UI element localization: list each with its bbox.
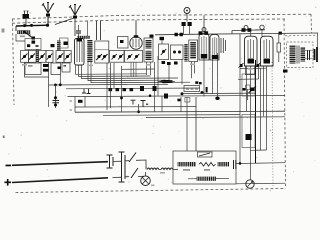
wire speaker ties xyxy=(305,51,315,59)
tube V6 electrodes xyxy=(264,39,270,58)
stray mark left margin top xyxy=(2,29,5,33)
band switch box S2 xyxy=(184,86,200,92)
variable capacitor CV12 xyxy=(162,50,165,53)
wire bus 2 xyxy=(232,30,265,34)
shield dotted vertical mid-right xyxy=(272,62,273,186)
blob above S2 a xyxy=(195,81,198,84)
wire battery link bottom xyxy=(113,176,130,179)
label in box A xyxy=(28,65,33,67)
wire rail 88 xyxy=(66,87,200,90)
trimmer C7 xyxy=(188,22,192,26)
wire right horiz 68 xyxy=(240,67,267,69)
output tube V4 can xyxy=(210,35,219,61)
tube V5 cathode blob xyxy=(248,59,255,64)
battery minus wire xyxy=(12,162,108,166)
rail y93 xyxy=(182,92,256,95)
capacitor T1 top xyxy=(150,35,154,38)
coil column above G5 xyxy=(57,41,61,51)
switch S1 pole 2 xyxy=(131,168,138,178)
wire nested L v3 xyxy=(82,65,179,79)
shield border dashed left vertical xyxy=(13,19,15,105)
trimmer C2b tick xyxy=(36,45,39,47)
variable capacitor CV9 xyxy=(113,55,116,58)
wire antenna A1 down xyxy=(47,17,49,26)
wire rail 96 xyxy=(68,95,286,96)
node rail84 j1 xyxy=(54,84,57,87)
trimmer C12 xyxy=(140,86,144,91)
tuning capacitor top blob xyxy=(77,38,83,42)
trimmer C4 xyxy=(64,42,69,46)
battery plate 4 xyxy=(124,155,126,179)
antenna A1 xyxy=(42,3,54,14)
wire nested L v5 xyxy=(91,62,190,83)
wire nested L v2 xyxy=(79,65,151,76)
wire battery link top xyxy=(113,160,130,163)
tick in box C xyxy=(64,65,67,67)
long rail B xyxy=(75,111,285,112)
antenna A2 lead-in connector xyxy=(73,16,77,19)
output transformer T3 primary xyxy=(290,46,296,64)
node rail junction b xyxy=(181,92,184,95)
filter choke L9 xyxy=(218,162,230,166)
wire long drop x196 xyxy=(195,97,197,151)
IF transformer T2 can xyxy=(189,40,198,62)
wire terminal down xyxy=(186,14,188,22)
wire right drop 262 xyxy=(263,66,265,116)
gang box G3 xyxy=(39,51,46,63)
gang box G5 xyxy=(56,51,64,63)
variable capacitor CV11 xyxy=(128,55,131,58)
wire antenna diagonal changeover xyxy=(55,18,74,25)
wire meter stem xyxy=(250,150,252,180)
node x121 xyxy=(120,97,123,100)
capacitor T-cap b xyxy=(141,101,146,107)
trimmer C2 xyxy=(27,44,30,47)
trimmer C6 xyxy=(182,22,186,26)
power tube V6 envelope xyxy=(261,36,274,66)
variable capacitor CV11b xyxy=(135,55,138,58)
wire T2 drops xyxy=(192,62,195,79)
resistor R3 xyxy=(123,88,127,91)
capacitor C5 xyxy=(76,31,81,33)
meter M1 xyxy=(246,180,254,188)
IF grid box xyxy=(159,44,169,60)
label smudge 1 xyxy=(22,64,27,66)
tube V1 mixer envelope xyxy=(130,37,142,49)
trimmer C10b xyxy=(256,64,259,67)
wire hf bus xyxy=(155,33,318,35)
wire after switch top xyxy=(136,160,146,169)
switch S1 pole 1 xyxy=(129,153,136,163)
wire T1 drops xyxy=(147,62,151,75)
wire choke drop xyxy=(217,53,219,98)
output transformer shield dashed box xyxy=(287,42,314,68)
wire C11 drop xyxy=(247,90,249,101)
wire IF drops xyxy=(181,60,187,152)
capacitor T-cap a xyxy=(131,100,136,104)
capacitor ground T1b xyxy=(87,89,91,94)
antenna A2 xyxy=(69,5,81,16)
wire right drop 244 xyxy=(246,66,248,111)
grid box RF xyxy=(60,38,69,48)
vibrator switch S3 xyxy=(198,152,213,157)
wire drop x158 xyxy=(158,56,162,111)
choke L5 xyxy=(221,38,226,53)
variable capacitor CV7 xyxy=(97,55,100,58)
trimmer C3 xyxy=(51,44,55,47)
volume control wiper arrow xyxy=(160,80,173,84)
wire nested L v1 xyxy=(76,65,147,74)
padder box B xyxy=(51,63,61,75)
wire ring3 drop xyxy=(261,30,263,37)
T2 winding xyxy=(190,42,196,59)
label under L8 xyxy=(183,169,190,171)
wire right link 163 xyxy=(236,34,285,164)
IF transformer T2 primary hatch xyxy=(184,44,187,62)
tuning capacitor plates xyxy=(77,41,82,62)
long rail A xyxy=(75,106,196,108)
resistor R2 xyxy=(116,88,120,91)
label smudge 4 xyxy=(190,64,195,66)
variable capacitor CV3 xyxy=(40,55,43,58)
filter choke L8 xyxy=(178,162,197,166)
blob left of small box xyxy=(177,99,180,102)
variable capacitor CV8 xyxy=(103,55,106,58)
wire nested L v4 xyxy=(88,62,162,81)
volume control box upper xyxy=(242,74,255,96)
contact bar S2 xyxy=(206,87,208,93)
node hf bus 2 xyxy=(180,33,183,36)
node wire163 x240 xyxy=(239,162,242,165)
wire box to meter xyxy=(236,182,285,185)
wire screen drop 2 xyxy=(100,21,102,41)
wire U link under tubes xyxy=(246,66,255,75)
wire antenna bus xyxy=(16,24,48,27)
scan speckle noise xyxy=(8,5,317,191)
tick near T-cap b xyxy=(146,104,148,106)
battery plate 1 long xyxy=(107,155,113,168)
stray mark left xyxy=(3,136,5,139)
blob near x240 xyxy=(243,88,246,91)
tube V1 electrodes xyxy=(133,39,139,48)
variable capacitor CV4 xyxy=(48,55,51,58)
battery plate 2 xyxy=(112,157,114,166)
wire gang G1 drop xyxy=(25,62,49,77)
shield border dashed bottom xyxy=(16,189,286,193)
wire choke link xyxy=(159,168,178,170)
node S2 right xyxy=(201,91,204,94)
mixer grid box xyxy=(118,37,129,49)
wire right drop 266 xyxy=(266,66,268,150)
tube V5 electrodes xyxy=(248,39,254,58)
node choke drop blob xyxy=(215,97,219,100)
tube V4 electrodes xyxy=(213,37,217,55)
coupling coil L3 horizontal hatch xyxy=(77,36,90,39)
electrolytic C15 stack xyxy=(55,85,57,108)
node x138 rail xyxy=(137,110,140,113)
T3 core xyxy=(297,46,299,64)
wire V1 top cap lead xyxy=(135,20,137,35)
long rail C xyxy=(103,114,240,117)
variable capacitor CV2 xyxy=(30,55,33,58)
trimmer C10a xyxy=(240,64,243,67)
terminal ring 3 xyxy=(260,25,264,29)
choke L6 humps xyxy=(147,168,159,170)
terminal ring 2 xyxy=(244,26,248,30)
wire plug to bus xyxy=(25,19,27,26)
trimmer C13 xyxy=(153,86,157,91)
padder capacitor pair lower xyxy=(43,69,49,72)
wire lamp stem xyxy=(145,172,147,176)
tube V3 base xyxy=(201,54,207,59)
node bus junction 2 xyxy=(30,24,33,27)
detector tube V3 can xyxy=(199,34,209,61)
tick mark left xyxy=(70,101,73,110)
tube V2 electrodes xyxy=(173,51,176,54)
capacitor C8 xyxy=(160,37,165,40)
padder box A xyxy=(25,63,41,75)
shield border dashed right long vertical xyxy=(284,19,286,189)
label smudge 3 xyxy=(146,64,151,66)
padder box C xyxy=(62,63,70,72)
blob in box B xyxy=(58,67,62,70)
wire drop x131-136 xyxy=(131,62,136,77)
capacitor blob under IF box 2 xyxy=(167,62,171,65)
small box below S2 xyxy=(185,98,190,103)
terminal ring 1 xyxy=(202,28,206,32)
wire rail 79 right xyxy=(238,66,259,79)
wire under IF boxes xyxy=(168,65,170,82)
shield border dashed top inner xyxy=(12,19,285,23)
T1 winding upper xyxy=(146,40,152,49)
shield border dashed right short vertical xyxy=(310,14,313,33)
wire drop x121 xyxy=(121,66,123,112)
wire drop bundle from RF box xyxy=(107,63,114,110)
T3 secondary xyxy=(301,48,306,62)
tube V1 top cap xyxy=(134,35,138,38)
gang box G4 xyxy=(46,51,53,63)
node bus junction 1 xyxy=(23,24,26,27)
wire bus left drop xyxy=(15,26,17,31)
wire drop x154 xyxy=(154,62,156,112)
wire screen drop 1 xyxy=(96,21,98,40)
resistor R5 vertical xyxy=(277,43,281,52)
wire right link 150 xyxy=(251,149,267,151)
RF stage box xyxy=(95,41,109,63)
node wire33 at border xyxy=(279,32,282,35)
battery plate 3 long xyxy=(119,152,125,182)
secondary choke L10 xyxy=(197,177,217,181)
battery plus wire xyxy=(12,178,108,183)
trimmer C11 xyxy=(250,88,255,92)
gang box G2 xyxy=(29,51,37,63)
phone plug P1 body xyxy=(23,14,30,19)
wire drop x260 xyxy=(260,68,262,150)
wire C8 drop xyxy=(161,40,163,44)
wire V3 base drop xyxy=(203,59,205,97)
wire top tie xyxy=(87,21,89,36)
mixer grid contents xyxy=(120,40,124,43)
resistor R4 xyxy=(130,88,134,91)
node rail junction a xyxy=(149,94,152,97)
node bus blob 2 xyxy=(205,31,209,35)
battery minus sign xyxy=(6,165,12,167)
node C15 top xyxy=(54,96,57,99)
node bus2 blob 2 xyxy=(248,28,252,32)
tube V2 IF amp box xyxy=(171,45,184,60)
wire drop x138 xyxy=(138,104,140,112)
speaker LS xyxy=(315,47,318,62)
variable tap arrow L1 xyxy=(24,31,34,39)
coil L2 hatch column xyxy=(36,50,39,63)
wire right drop 249 xyxy=(250,66,252,150)
variable capacitor CV5 xyxy=(58,55,61,58)
wire right bold drop 255 xyxy=(255,60,257,163)
choke L7 humps xyxy=(161,168,173,170)
right small box xyxy=(242,115,255,148)
phone plug P1 pins xyxy=(24,11,29,14)
filter box F1 xyxy=(173,151,236,184)
wire L10 leads xyxy=(188,177,229,180)
oscillator box b xyxy=(125,50,143,62)
label smudge 7 xyxy=(151,185,155,187)
wire speaker feed xyxy=(316,33,318,47)
long rail D xyxy=(146,116,285,119)
label under R9 xyxy=(204,169,210,171)
gang box G6 xyxy=(64,51,71,63)
variable capacitor CV10 xyxy=(119,55,122,58)
wire antenna A2 down xyxy=(74,19,76,37)
T1 winding lower xyxy=(146,51,152,61)
resistor R9 zigzag xyxy=(199,163,216,167)
power tube V5 envelope xyxy=(245,36,258,66)
wire after switch bottom xyxy=(138,175,144,177)
capacitor blob under IF box 3 xyxy=(174,62,178,65)
oscillator box a xyxy=(110,50,125,62)
variable capacitor CV6 xyxy=(66,55,69,58)
tube V4 base xyxy=(212,55,218,59)
variable capacitor CV1 xyxy=(23,55,26,58)
wire short rail 69 xyxy=(122,68,155,70)
wire V5 top xyxy=(250,30,252,36)
wire arrow tail blob xyxy=(32,37,36,40)
node C15 bottom xyxy=(54,104,57,107)
capacitor blob under IF box 1 xyxy=(162,61,166,64)
wire V4 base drop xyxy=(212,59,214,94)
wire rail left riser xyxy=(75,96,85,112)
capacitor ground T1a xyxy=(82,89,86,93)
resistor R8 in box xyxy=(246,134,252,140)
oscillator coil T1 can xyxy=(144,38,153,62)
wire C5 up xyxy=(78,25,80,36)
blob above S2 b xyxy=(199,82,202,84)
pickup terminal G xyxy=(184,8,190,14)
node bus junction 3 xyxy=(46,24,49,27)
node bus2 blob 1 xyxy=(242,28,246,32)
resistor box right xyxy=(246,85,250,90)
label smudge 5 xyxy=(248,68,253,70)
battery plus sign xyxy=(5,179,12,186)
dashed stub top right xyxy=(285,34,318,37)
resistor R1 xyxy=(109,88,113,91)
trimmer C14 xyxy=(164,94,168,99)
tuning capacitor can CVG xyxy=(75,39,85,66)
pilot lamp LP xyxy=(141,176,151,186)
wire rail 84 xyxy=(49,83,168,86)
label smudge 6 xyxy=(160,172,165,174)
tube V6 cathode blob xyxy=(264,59,271,64)
capacitor C16 at box edge xyxy=(234,160,236,169)
node rail84 j2 xyxy=(59,83,62,86)
RF coil L4 stack xyxy=(87,40,92,62)
tube V3 electrodes xyxy=(202,36,206,54)
band switch contacts xyxy=(186,88,189,90)
trimmer box xyxy=(25,39,41,50)
shield border dashed top outer xyxy=(12,14,311,19)
wire coil to trimmer xyxy=(16,34,30,41)
trimmer C1 xyxy=(32,41,36,44)
wire long drop x48 xyxy=(48,62,50,107)
padder capacitor pair upper xyxy=(43,64,49,67)
wire V3 top lead xyxy=(203,15,205,33)
wire trimmers down xyxy=(184,26,190,35)
wire drop x60 xyxy=(59,75,61,85)
label L1 xyxy=(20,36,25,38)
gang box G1 xyxy=(21,51,29,63)
wire R5 leads xyxy=(278,33,280,62)
antenna coil L1 xyxy=(18,31,31,34)
label smudge 2 xyxy=(88,65,93,67)
resistor small at rail left xyxy=(78,100,83,103)
tick on dashed border xyxy=(283,70,288,73)
node hf bus 1 xyxy=(175,33,178,36)
node bus blob 1 xyxy=(199,31,203,35)
capacitor C9 xyxy=(308,50,310,60)
antenna A1 lead-in connector xyxy=(46,14,50,17)
